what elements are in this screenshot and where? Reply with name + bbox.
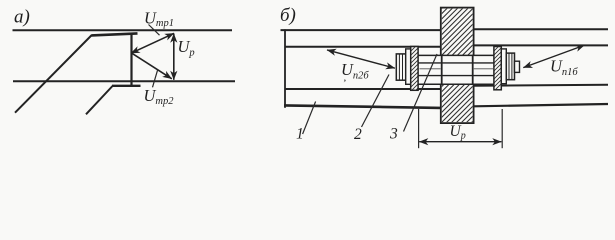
wire lower ledge (а) bbox=[112, 85, 141, 87]
nut (right) bbox=[506, 53, 514, 80]
svg-text:б): б) bbox=[280, 5, 296, 26]
wire upper ledge (а) bbox=[92, 33, 138, 35]
wire lower bevel diagonal (а) bbox=[86, 86, 113, 114]
column hatched body bbox=[425, 0, 594, 124]
hatched plate washer (right) bbox=[487, 34, 507, 98]
wire left top line 2 (б) bbox=[285, 46, 441, 48]
leader line Uтр2 bbox=[153, 70, 158, 87]
wire joint vertical (а) bbox=[130, 34, 132, 86]
svg-text:1: 1 bbox=[296, 126, 304, 143]
hatched plate washer (left) bbox=[404, 34, 424, 102]
leader line 2 bbox=[362, 75, 390, 128]
wire right top line 1 (б) bbox=[474, 28, 609, 30]
wire upper bevel diagonal (а) bbox=[15, 35, 92, 113]
washer (left) bbox=[406, 49, 411, 84]
washer (right) bbox=[501, 49, 506, 84]
wire top plate line (а) bbox=[13, 29, 233, 31]
bolt end (right) bbox=[515, 61, 520, 72]
wire left panel end edge (б) bbox=[284, 29, 286, 108]
vector Uтр2 arrow bbox=[132, 53, 172, 79]
vector Uр double arrow (а) bbox=[173, 34, 175, 80]
leader line 1 bbox=[303, 102, 316, 135]
dimension line Uр (б) bbox=[419, 141, 501, 143]
leader line Uтр1 bbox=[149, 25, 160, 36]
wire right bottom line 3 (б) bbox=[474, 85, 609, 86]
svg-text:2: 2 bbox=[354, 126, 362, 143]
vector Uп2б arrow bbox=[327, 50, 395, 68]
svg-text:,: , bbox=[344, 72, 347, 84]
svg-text:а): а) bbox=[14, 7, 30, 28]
bolt shaft lines bbox=[418, 63, 493, 76]
svg-text:Uтр2: Uтр2 bbox=[144, 86, 175, 107]
svg-text:Uп1б: Uп1б bbox=[550, 56, 578, 78]
svg-text:3: 3 bbox=[389, 125, 398, 142]
dimension extension line right bbox=[501, 109, 503, 148]
wire left bottom line 3 (б) bbox=[285, 88, 441, 90]
wire bottom plate line (а) bbox=[13, 80, 235, 82]
leader line 3 bbox=[404, 54, 438, 132]
wire right top line 2 (б) bbox=[474, 44, 609, 46]
bolt sleeve through column bbox=[418, 55, 493, 85]
svg-text:Uтр1: Uтр1 bbox=[144, 8, 174, 29]
wire right bottom line 4 (б) bbox=[474, 104, 609, 106]
bolt centerline bbox=[420, 68, 441, 70]
column edges across sleeve bbox=[442, 55, 473, 85]
dimension extension line left bbox=[418, 109, 420, 148]
vector Uтр1 arrow bbox=[131, 33, 174, 53]
vector Uп1б arrow bbox=[523, 45, 584, 68]
wire left bottom line 4 (б) bbox=[284, 105, 441, 108]
svg-text:Uр: Uр bbox=[178, 37, 195, 59]
svg-text:Uр: Uр bbox=[450, 123, 466, 142]
wire left top line 1 (б) bbox=[281, 29, 441, 31]
bolt head (left) bbox=[396, 54, 405, 80]
